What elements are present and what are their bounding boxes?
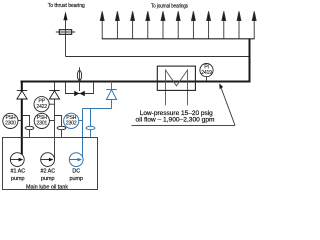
wire: #2 AC pump discharge — [54, 82, 56, 159]
oil cooler box with M — [157, 66, 195, 105]
valve stem capsule above manifold — [77, 67, 81, 91]
svg-text:#1 AC: #1 AC — [10, 168, 25, 174]
svg-text:2302: 2302 — [66, 121, 77, 127]
svg-text:DC: DC — [72, 168, 80, 174]
svg-text:pump: pump — [70, 176, 84, 182]
svg-text:oil flow – 1,900–2,300 gpm: oil flow – 1,900–2,300 gpm — [136, 118, 215, 124]
wire: thrust branch horizontal to downcomer — [66, 56, 251, 58]
pump #1 AC — [10, 153, 24, 167]
svg-text:Low-pressure 15–20 psig: Low-pressure 15–20 psig — [140, 111, 213, 117]
svg-text:2300: 2300 — [5, 121, 16, 127]
check valve on #1 pump line — [17, 91, 27, 100]
flow element FE (orifice) on thrust line — [56, 30, 75, 35]
wire: main discharge manifold — [21, 81, 251, 83]
wire: journal bearings header — [102, 38, 255, 40]
svg-text:pump: pump — [41, 176, 55, 182]
check valve on DC pump line (blue) — [106, 90, 117, 100]
callout: low-pressure note — [132, 83, 236, 125]
instrument PP 2422 — [34, 97, 55, 112]
svg-text:2422: 2422 — [36, 104, 47, 110]
blue test tap with root valve — [86, 109, 95, 137]
test tap #1 with root valve — [22, 116, 34, 137]
wire: right downcomer — [249, 39, 251, 83]
svg-text:2301: 2301 — [37, 121, 48, 127]
globe valve (bowtie) on bypass — [74, 91, 85, 97]
svg-text:To thrust bearing: To thrust bearing — [48, 3, 85, 9]
main lube oil tank — [3, 138, 98, 190]
instrument PSH 2302 (blue) — [64, 113, 83, 128]
svg-text:#2 AC: #2 AC — [40, 168, 55, 174]
test tap #2 with root valve — [55, 116, 66, 137]
arrow: to thrust bearing — [63, 11, 67, 20]
check valve on #2 pump line — [49, 91, 59, 100]
wire: thrust bearing branch vertical — [65, 17, 67, 57]
instrument PSH 2300 — [3, 113, 22, 128]
instrument PI 2419 — [200, 64, 213, 82]
pump #2 AC — [41, 153, 55, 167]
DC pump discharge piping (blue) — [83, 82, 112, 159]
svg-text:Main lube oil tank: Main lube oil tank — [26, 185, 68, 191]
svg-text:pump: pump — [11, 176, 25, 182]
arrows: journal bearings distribution — [100, 11, 256, 38]
bypass loop with globe valve — [66, 82, 94, 94]
instrument PSH 2301 — [34, 113, 54, 128]
svg-text:2419: 2419 — [201, 70, 212, 76]
svg-text:To journal bearings: To journal bearings — [151, 3, 188, 9]
wire: #1 AC pump discharge (bold) — [21, 81, 23, 160]
pump DC (blue) — [69, 153, 83, 167]
